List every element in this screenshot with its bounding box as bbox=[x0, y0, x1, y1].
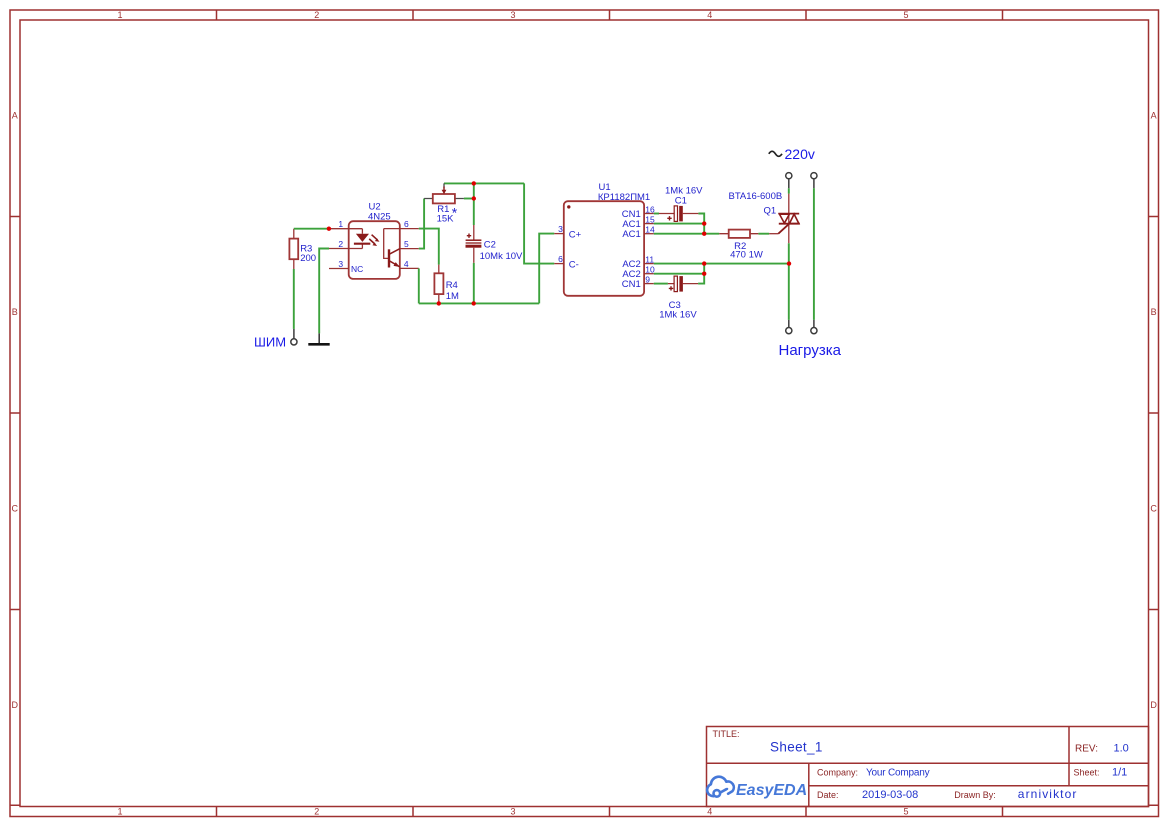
svg-text:B: B bbox=[12, 307, 18, 317]
light arrows inside U2 bbox=[369, 235, 379, 246]
svg-text:C: C bbox=[12, 504, 19, 514]
junction R1 right / C2 bbox=[472, 196, 476, 200]
svg-text:B: B bbox=[1151, 307, 1157, 317]
junction top rail / C2 bbox=[472, 181, 476, 185]
wire 220v right to Нагрузка right bbox=[813, 188, 815, 320]
svg-text:NC: NC bbox=[351, 264, 363, 274]
capacitor C3 bbox=[668, 276, 698, 292]
LED inside U2 bbox=[354, 229, 370, 249]
wire U1 pin9 to C3 bbox=[654, 283, 668, 285]
svg-text:Нагрузка: Нагрузка bbox=[779, 342, 842, 359]
svg-text:220v: 220v bbox=[785, 146, 815, 162]
U2 pin 3 (NC) bbox=[329, 259, 349, 269]
U1 pin 6 C- bbox=[554, 254, 579, 271]
terminal Нагрузка right bbox=[811, 320, 817, 334]
svg-text:3: 3 bbox=[338, 259, 343, 269]
ground bbox=[308, 333, 329, 344]
svg-text:C2: C2 bbox=[484, 240, 496, 251]
svg-text:Q1: Q1 bbox=[764, 205, 777, 216]
svg-text:Sheet:: Sheet: bbox=[1074, 768, 1100, 778]
phototransistor inside U2 bbox=[384, 229, 400, 268]
svg-text:15: 15 bbox=[645, 214, 655, 224]
svg-text:2: 2 bbox=[314, 807, 319, 817]
U2 pin 4 bbox=[400, 259, 419, 269]
wire U1 pin14 to R2 bbox=[654, 233, 720, 235]
svg-text:Company:: Company: bbox=[817, 768, 858, 778]
capacitor C1 bbox=[659, 206, 699, 222]
junction rail / C2 bbox=[472, 301, 476, 305]
svg-text:C+: C+ bbox=[569, 230, 582, 241]
wire U2 pin4 to bottom rail bbox=[418, 268, 420, 303]
junction triac / pin11 wire bbox=[787, 261, 791, 265]
svg-text:КР1182ПМ1: КР1182ПМ1 bbox=[598, 192, 650, 203]
U1 pin 11 AC2 bbox=[622, 254, 654, 270]
svg-text:D: D bbox=[1150, 700, 1157, 710]
svg-text:4: 4 bbox=[707, 807, 712, 817]
svg-text:A: A bbox=[12, 111, 18, 121]
junction pin15 branch bbox=[702, 221, 706, 225]
svg-text:EasyEDA: EasyEDA bbox=[736, 782, 807, 799]
svg-text:R4: R4 bbox=[446, 280, 458, 291]
svg-text:3: 3 bbox=[558, 224, 563, 234]
wire ШИМ terminal to R3 bbox=[293, 269, 295, 329]
svg-text:14: 14 bbox=[645, 224, 655, 234]
capacitor C2 bbox=[466, 225, 482, 263]
EasyEDA logo bbox=[707, 777, 734, 797]
junction pin10 branch bbox=[702, 272, 706, 276]
wire U2 pin6 to R4 bbox=[419, 229, 439, 265]
svg-text:1: 1 bbox=[338, 219, 343, 229]
svg-text:1Mk 16V: 1Mk 16V bbox=[659, 309, 697, 320]
IC U1 bbox=[564, 201, 644, 296]
junction dots layer bbox=[327, 181, 792, 305]
svg-text:Sheet_1: Sheet_1 bbox=[770, 740, 823, 755]
svg-text:9: 9 bbox=[645, 274, 650, 284]
svg-text:REV:: REV: bbox=[1075, 743, 1098, 754]
svg-text:arniviktor: arniviktor bbox=[1018, 787, 1078, 801]
wire U1 pin16 to C1 bbox=[654, 213, 659, 215]
wire U1 pin11 to triac bbox=[654, 263, 789, 265]
title block bbox=[707, 727, 1149, 807]
net flag ~220v bbox=[769, 146, 815, 162]
resistor R4 bbox=[434, 265, 443, 304]
triac Q1 bbox=[769, 194, 800, 244]
junction pin11 branch bbox=[702, 261, 706, 265]
wire C2 top branch bbox=[473, 183, 475, 225]
wire bottom rail to U1 pin C+ bbox=[539, 234, 554, 304]
top rail wire bbox=[444, 182, 524, 184]
U2 pin 2 bbox=[329, 239, 362, 249]
junction rail / R4 bbox=[437, 301, 441, 305]
svg-text:3: 3 bbox=[510, 807, 515, 817]
svg-text:Drawn By:: Drawn By: bbox=[954, 790, 996, 800]
svg-text:2: 2 bbox=[314, 10, 319, 20]
svg-text:AC1: AC1 bbox=[622, 229, 640, 240]
svg-text:Your Company: Your Company bbox=[866, 768, 930, 779]
svg-text:3: 3 bbox=[510, 10, 515, 20]
svg-text:Date:: Date: bbox=[817, 790, 839, 800]
svg-text:6: 6 bbox=[558, 254, 563, 264]
resistor R2 bbox=[719, 230, 758, 238]
svg-text:1.0: 1.0 bbox=[1114, 742, 1129, 754]
svg-text:CN1: CN1 bbox=[622, 279, 641, 290]
resistor R3 bbox=[289, 229, 298, 269]
svg-text:4N25: 4N25 bbox=[368, 212, 391, 223]
svg-text:C-: C- bbox=[569, 260, 579, 271]
svg-text:6: 6 bbox=[404, 219, 409, 229]
U1 pin 3 C+ bbox=[554, 224, 581, 241]
wire C1 right to pin14 branch bbox=[698, 214, 704, 234]
svg-text:1: 1 bbox=[117, 10, 122, 20]
U1 pin 14 AC1 bbox=[622, 224, 655, 240]
junction at U2 pin 1 bbox=[327, 227, 331, 231]
svg-text:BTA16-600В: BTA16-600В bbox=[729, 191, 783, 202]
wire ground to U2 pin 2 bbox=[319, 249, 329, 334]
svg-text:5: 5 bbox=[903, 10, 908, 20]
svg-text:5: 5 bbox=[404, 239, 409, 249]
svg-text:2: 2 bbox=[338, 239, 343, 249]
wire 220v left to triac bbox=[788, 188, 790, 193]
U1 pin 15 AC1 bbox=[622, 214, 655, 230]
U1 pin 9 CN1 bbox=[622, 274, 654, 290]
svg-text:C: C bbox=[1150, 504, 1157, 514]
svg-text:*: * bbox=[452, 205, 458, 221]
wire U1 pin10 bbox=[654, 273, 704, 275]
svg-text:10Mk 10V: 10Mk 10V bbox=[480, 251, 523, 262]
terminal 220v left bbox=[786, 173, 792, 189]
potentiometer R1 bbox=[424, 183, 464, 203]
svg-text:4: 4 bbox=[404, 259, 409, 269]
svg-text:1/1: 1/1 bbox=[1112, 767, 1127, 779]
wire C2 bottom to rail bbox=[473, 263, 475, 304]
wire C3 right to pin11 branch bbox=[698, 264, 704, 284]
U2 pin 5 bbox=[400, 239, 419, 249]
svg-text:ШИМ: ШИМ bbox=[254, 335, 286, 350]
svg-text:TITLE:: TITLE: bbox=[713, 729, 740, 739]
svg-text:200: 200 bbox=[300, 253, 316, 264]
wire top rail to U1 pin C- bbox=[524, 183, 554, 263]
U1 pin 10 AC2 bbox=[622, 264, 655, 280]
svg-text:16: 16 bbox=[645, 204, 655, 214]
U2 pin 1 bbox=[329, 219, 362, 229]
wire U1 pin15 bbox=[654, 223, 704, 225]
svg-text:11: 11 bbox=[645, 254, 654, 264]
svg-text:A: A bbox=[1151, 111, 1157, 121]
junction pin14 branch bbox=[702, 232, 706, 236]
wire triac to Нагрузка left bbox=[788, 243, 790, 320]
terminal 220v right bbox=[811, 173, 817, 189]
svg-text:5: 5 bbox=[903, 807, 908, 817]
terminal ШИМ bbox=[291, 329, 297, 345]
optocoupler U2 bbox=[349, 221, 400, 279]
svg-text:2019-03-08: 2019-03-08 bbox=[862, 789, 918, 801]
svg-text:10: 10 bbox=[645, 264, 655, 274]
wire R3 to U2 pin 1 bbox=[294, 228, 329, 230]
bottom rail wire bbox=[419, 302, 539, 304]
svg-text:D: D bbox=[12, 700, 19, 710]
svg-text:4: 4 bbox=[707, 10, 712, 20]
svg-text:1Mk 16V: 1Mk 16V bbox=[665, 185, 703, 196]
wire R1 right lead to C2 branch bbox=[464, 198, 474, 200]
svg-text:1: 1 bbox=[117, 807, 122, 817]
svg-text:C1: C1 bbox=[675, 195, 687, 206]
wire U2 pin5 to R1 bbox=[419, 199, 424, 249]
svg-text:1M: 1M bbox=[446, 291, 459, 302]
wire R2 to triac gate bbox=[758, 233, 769, 235]
svg-text:470 1W: 470 1W bbox=[730, 250, 763, 261]
terminal Нагрузка left bbox=[786, 320, 792, 334]
U2 pin 6 bbox=[384, 219, 419, 229]
U1 pin 16 CN1 bbox=[622, 204, 655, 220]
